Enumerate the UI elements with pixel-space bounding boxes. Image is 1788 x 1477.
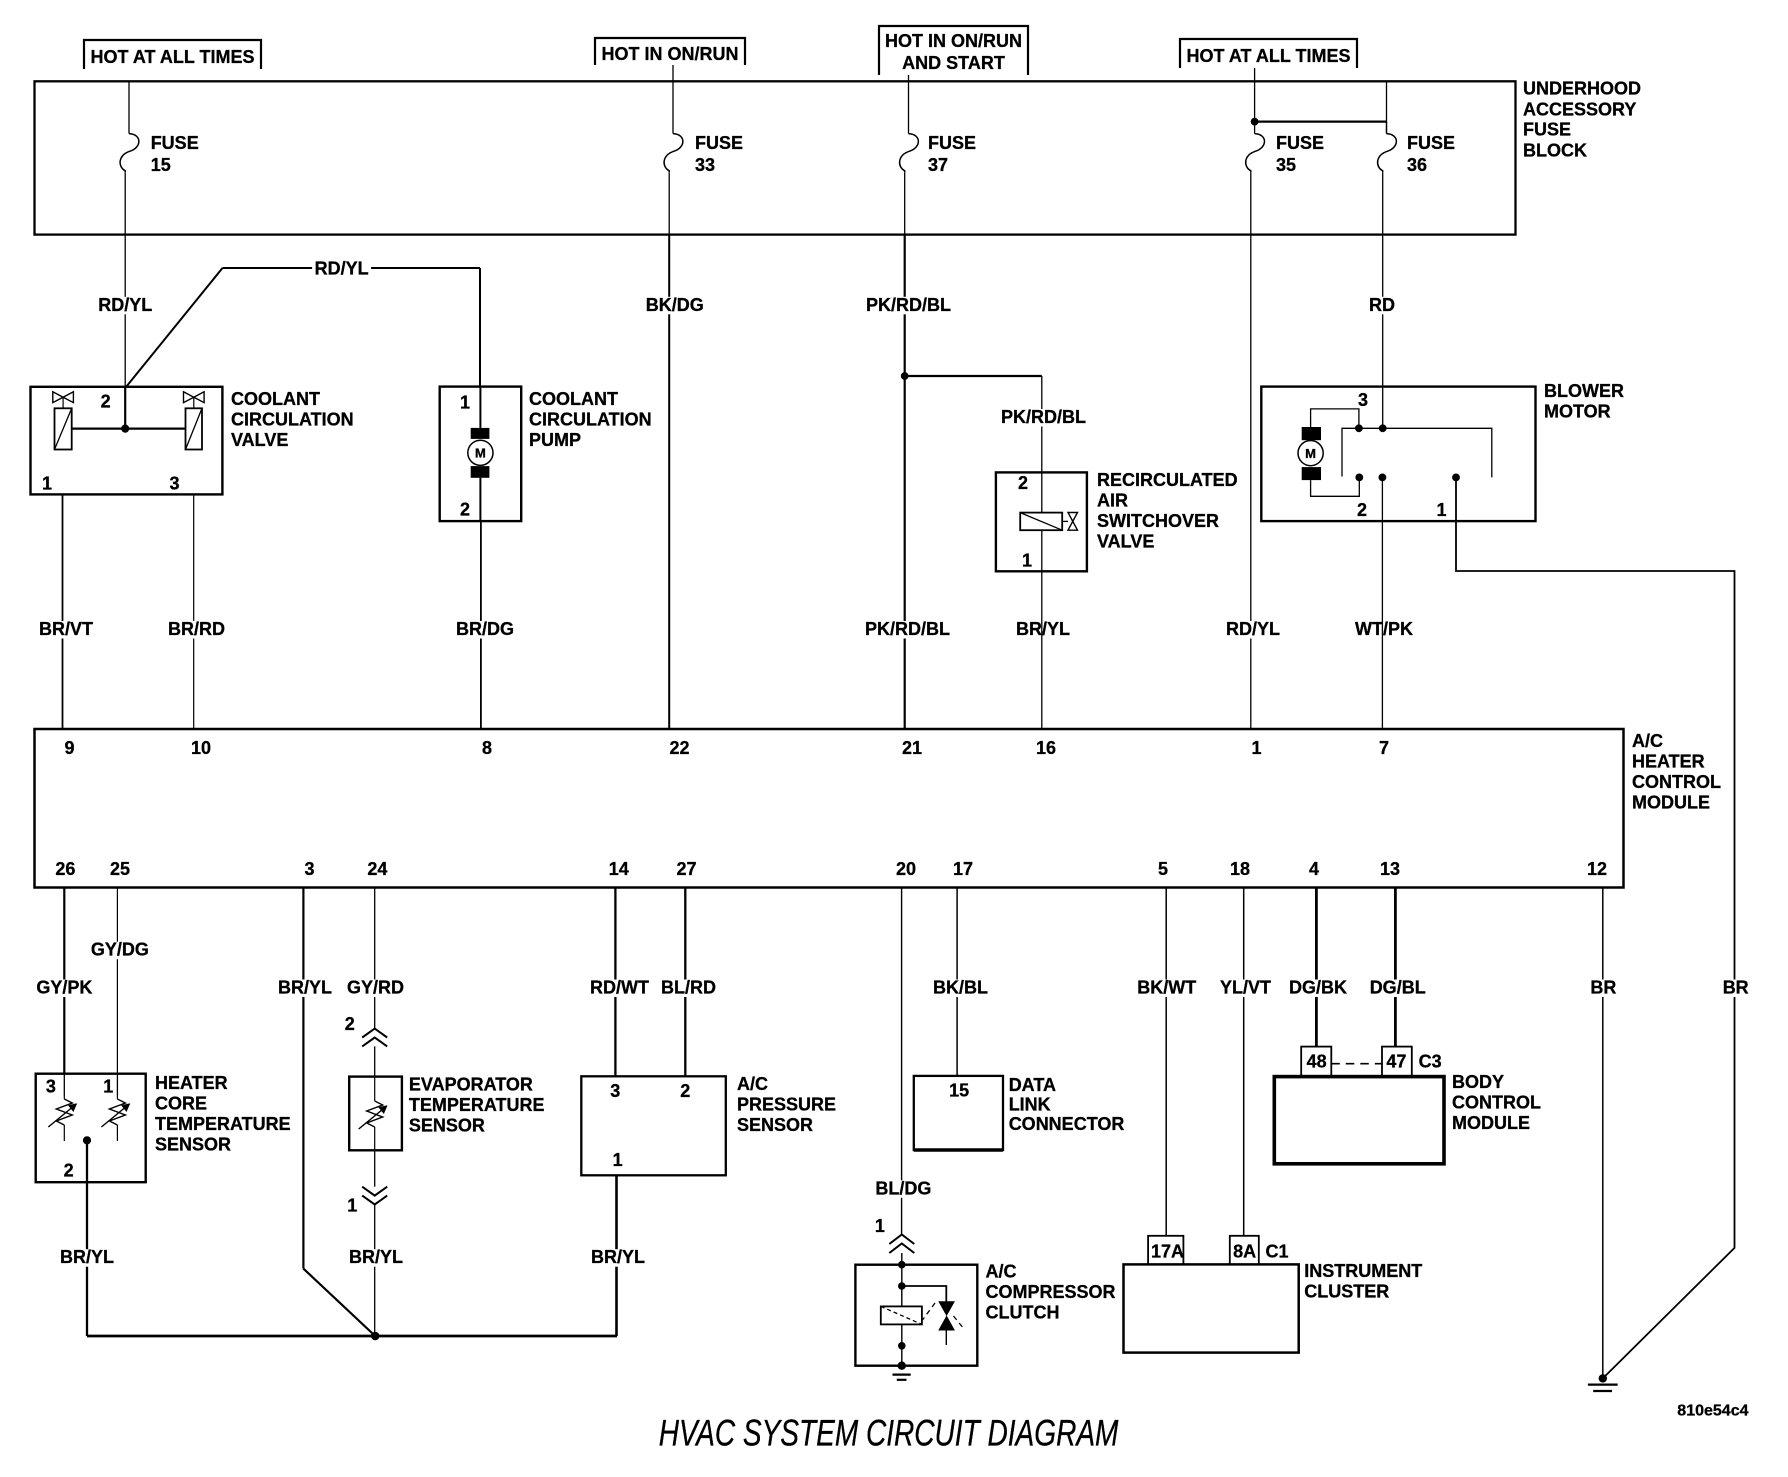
- contact dot blower pin1: [1452, 474, 1460, 482]
- A/C compressor clutch box: [855, 1265, 977, 1366]
- blower motor box: [1261, 387, 1535, 521]
- svg-text:CLUSTER: CLUSTER: [1304, 1282, 1389, 1302]
- wire blower motor bottom to pin2 row: [1311, 477, 1360, 496]
- fuse F36 wire to block edge: [1382, 172, 1384, 234]
- junction dot clutch bottom1: [898, 1342, 906, 1350]
- svg-text:3: 3: [170, 474, 180, 494]
- svg-text:3: 3: [610, 1081, 620, 1101]
- svg-text:9: 9: [65, 738, 75, 758]
- heater core temperature sensor label: [155, 1073, 291, 1155]
- label PK/RD/BL (upper): [864, 295, 954, 315]
- power label HOT IN ON/RUN: [595, 38, 745, 65]
- svg-text:VALVE: VALVE: [1097, 532, 1154, 552]
- wire internal link coolant valve: [72, 427, 186, 429]
- A/C pressure sensor box: [581, 1076, 726, 1175]
- svg-text:RECIRCULATED: RECIRCULATED: [1097, 470, 1238, 490]
- wire BR/YL evaporator to splice: [374, 1205, 376, 1337]
- module bottom pin 20: [896, 859, 916, 879]
- junction dot fuse35/36 feed: [1251, 118, 1259, 126]
- label RD/YL (fuse15 wire): [96, 295, 155, 315]
- label GY/PK: [34, 978, 95, 998]
- connector C1 label: [1266, 1242, 1289, 1262]
- label BL/DG: [873, 1178, 934, 1198]
- svg-text:2: 2: [345, 1014, 355, 1034]
- svg-text:WT/PK: WT/PK: [1355, 619, 1413, 639]
- svg-text:LINK: LINK: [1009, 1094, 1051, 1114]
- svg-text:1: 1: [460, 393, 470, 413]
- wire stub HOT IN ON/RUN to bus: [672, 65, 674, 82]
- pin 2 pressure sensor: [680, 1081, 690, 1101]
- svg-text:8: 8: [482, 738, 492, 758]
- svg-text:48: 48: [1307, 1052, 1327, 1072]
- wire WT/PK blower pin2 to module pin7: [1381, 477, 1383, 729]
- wire GY/DG module pin25 to heater core sensor pin1: [116, 888, 118, 1074]
- module top pin 16: [1036, 738, 1056, 758]
- coolant circulation pump box: [440, 387, 522, 521]
- ground compressor clutch: [893, 1375, 911, 1380]
- pin 2 heater core sensor: [64, 1161, 74, 1181]
- fuse F15 element: [120, 134, 139, 173]
- module bottom pin 17: [953, 859, 973, 879]
- label WT/PK: [1353, 619, 1416, 639]
- connector 1 evaporator sensor: [347, 1187, 387, 1216]
- svg-text:5: 5: [1158, 859, 1168, 879]
- label BR/YL (pin3): [276, 978, 335, 998]
- wire BR/RD valve pin3 to module pin10: [193, 494, 195, 729]
- svg-text:20: 20: [896, 859, 916, 879]
- svg-text:PK/RD/BL: PK/RD/BL: [865, 619, 950, 639]
- label BR/YL (heater core): [58, 1247, 117, 1267]
- label PK/RD/BL (lower): [863, 619, 953, 639]
- fuse F15 wire from bus: [128, 81, 130, 133]
- coolant circulation valve label: [231, 389, 354, 450]
- label BR (right): [1720, 978, 1751, 998]
- svg-text:C1: C1: [1266, 1242, 1289, 1262]
- fuse F37 wire from bus: [908, 81, 910, 133]
- svg-text:7: 7: [1379, 738, 1389, 758]
- coolant circulation valve box: [31, 387, 223, 495]
- svg-text:CONTROL: CONTROL: [1632, 772, 1721, 792]
- module bottom pin 5: [1158, 859, 1168, 879]
- svg-text:35: 35: [1276, 155, 1296, 175]
- module bottom pin 4: [1309, 859, 1319, 879]
- fuse F15 wire to block edge: [124, 172, 126, 234]
- A/C pressure sensor label: [737, 1074, 836, 1135]
- ground splice dot: [1599, 1374, 1607, 1382]
- svg-text:GY/DG: GY/DG: [91, 940, 149, 960]
- svg-text:2: 2: [1357, 500, 1367, 520]
- svg-text:1: 1: [42, 474, 52, 494]
- junction dot coolant valve pin2: [121, 425, 129, 433]
- body control module pin 48: [1301, 1047, 1331, 1077]
- fuse F36 element: [1378, 134, 1397, 173]
- svg-text:14: 14: [609, 859, 629, 879]
- label YL/VT: [1218, 978, 1274, 998]
- module bottom pin 13: [1380, 859, 1400, 879]
- svg-text:12: 12: [1587, 859, 1607, 879]
- fuse F36 wire from bus: [1386, 81, 1388, 133]
- label PK/RD/BL (branch): [999, 407, 1089, 427]
- junction dot clutch branch: [898, 1282, 906, 1290]
- contact dot blower pin2: [1379, 474, 1387, 482]
- pin 1 pressure sensor: [613, 1150, 623, 1170]
- svg-text:TEMPERATURE: TEMPERATURE: [155, 1114, 291, 1134]
- fuse F35 wire to block edge: [1250, 172, 1252, 234]
- fuse F35 wire from bus: [1254, 81, 1256, 133]
- svg-text:10: 10: [191, 738, 211, 758]
- svg-text:HVAC SYSTEM CIRCUIT DIAGRAM: HVAC SYSTEM CIRCUIT DIAGRAM: [659, 1411, 1119, 1453]
- svg-text:47: 47: [1386, 1052, 1406, 1072]
- label RD/YL (branch to pump): [312, 258, 371, 278]
- label BR/RD: [166, 619, 228, 639]
- svg-text:BLOCK: BLOCK: [1523, 141, 1587, 161]
- instrument cluster label: [1304, 1261, 1422, 1302]
- fuse F37 element: [900, 134, 919, 173]
- svg-text:BK/BL: BK/BL: [933, 978, 988, 998]
- svg-text:1: 1: [875, 1216, 885, 1236]
- module bottom pin 12: [1587, 859, 1607, 879]
- fuse F37 wire to block edge: [904, 172, 906, 234]
- svg-text:AND START: AND START: [902, 53, 1005, 73]
- wire RD/WT module pin14 to pressure sensor pin3: [614, 888, 616, 1077]
- power label HOT AT ALL TIMES (left): [84, 40, 261, 69]
- svg-text:FUSE: FUSE: [928, 133, 976, 153]
- fuse F33 wire from bus: [672, 81, 674, 133]
- svg-text:37: 37: [928, 155, 948, 175]
- module bottom pin 14: [609, 859, 629, 879]
- wire fuse35 feed to fuse36: [1255, 122, 1387, 134]
- svg-text:BR/RD: BR/RD: [168, 619, 225, 639]
- svg-text:BL/DG: BL/DG: [875, 1178, 931, 1198]
- svg-text:BR/YL: BR/YL: [591, 1247, 645, 1267]
- svg-text:1: 1: [1252, 738, 1262, 758]
- svg-text:BR/YL: BR/YL: [349, 1247, 403, 1267]
- svg-text:BR/DG: BR/DG: [456, 619, 514, 639]
- wire clutch diode branch: [902, 1286, 947, 1302]
- svg-text:CIRCULATION: CIRCULATION: [529, 410, 652, 430]
- dashed link 48-47: [1331, 1063, 1382, 1065]
- svg-text:COOLANT: COOLANT: [231, 389, 320, 409]
- junction dot clutch top: [898, 1261, 906, 1269]
- wire RD/YL branch diagonal to coolant circulation pump: [125, 268, 480, 388]
- junction dot heater core pin2: [83, 1136, 91, 1144]
- junction dot splice: [371, 1332, 380, 1341]
- svg-text:BODY: BODY: [1452, 1072, 1504, 1092]
- wire BR/YL module pin3 to splice: [303, 888, 375, 1337]
- recirc valve solenoid: [1020, 513, 1077, 531]
- svg-text:DG/BL: DG/BL: [1370, 978, 1426, 998]
- label BR/YL (evap): [347, 1247, 406, 1267]
- svg-text:DG/BK: DG/BK: [1289, 978, 1347, 998]
- svg-text:1: 1: [347, 1196, 357, 1216]
- underhood accessory fuse block box: [35, 81, 1516, 234]
- svg-text:RD/YL: RD/YL: [315, 258, 369, 278]
- svg-text:FUSE: FUSE: [151, 133, 199, 153]
- svg-text:HOT AT ALL TIMES: HOT AT ALL TIMES: [91, 47, 255, 67]
- svg-text:CORE: CORE: [155, 1094, 207, 1114]
- pin 2 coolant valve: [101, 392, 111, 412]
- svg-text:BR/YL: BR/YL: [1016, 619, 1070, 639]
- svg-text:COMPRESSOR: COMPRESSOR: [986, 1282, 1116, 1302]
- instrument cluster box: [1124, 1264, 1299, 1352]
- svg-text:AIR: AIR: [1097, 491, 1128, 511]
- module bottom pin 24: [367, 859, 387, 879]
- svg-text:CLUTCH: CLUTCH: [986, 1303, 1060, 1323]
- svg-text:BR: BR: [1723, 978, 1749, 998]
- wire BK/WT module pin5 to instrument cluster 17A: [1165, 888, 1167, 1236]
- svg-text:HEATER: HEATER: [1632, 752, 1705, 772]
- wire BK/BL module pin17 to data link connector: [956, 888, 958, 1076]
- svg-text:BR/YL: BR/YL: [60, 1247, 114, 1267]
- svg-text:MOTOR: MOTOR: [1544, 402, 1611, 422]
- pin 3 pressure sensor: [610, 1081, 620, 1101]
- pin 15 data link connector: [949, 1081, 969, 1101]
- wire YL/VT module pin18 to instrument cluster 8A: [1243, 888, 1245, 1236]
- svg-text:PK/RD/BL: PK/RD/BL: [1001, 407, 1086, 427]
- svg-text:INSTRUMENT: INSTRUMENT: [1304, 1261, 1422, 1281]
- blower motor label: [1544, 381, 1624, 422]
- svg-text:24: 24: [367, 859, 387, 879]
- svg-text:FUSE: FUSE: [1523, 120, 1571, 140]
- pin 3 coolant valve: [170, 474, 180, 494]
- wire PK/RD/BL branch to recirculated air switchover valve: [905, 376, 1042, 472]
- wire heater core pin2 to splice bus: [86, 1140, 88, 1336]
- fuse F33 wire to block edge: [668, 172, 670, 234]
- svg-text:1: 1: [1437, 500, 1447, 520]
- svg-text:1: 1: [613, 1150, 623, 1170]
- body control module box: [1274, 1077, 1444, 1164]
- wire BL/DG module pin20 to compressor clutch: [901, 888, 903, 1235]
- wire RD fuse36 to blower motor: [1382, 235, 1384, 429]
- label BR/YL (recirc valve): [1014, 619, 1073, 639]
- svg-text:HOT IN ON/RUN: HOT IN ON/RUN: [602, 44, 739, 64]
- label DG/BK: [1287, 978, 1350, 998]
- module bottom pin 3: [305, 859, 315, 879]
- svg-text:18: 18: [1230, 859, 1250, 879]
- wire RD/YL fuse35 to module pin1: [1250, 235, 1252, 729]
- wire BR module pin12 to ground: [1602, 888, 1604, 1379]
- wire evaporator sensor pin1 down: [374, 1150, 376, 1186]
- pin 1 coolant valve: [42, 474, 52, 494]
- fuse F33 label: [695, 133, 743, 175]
- svg-text:MODULE: MODULE: [1632, 793, 1710, 813]
- wire clutch coil bottom: [901, 1324, 903, 1365]
- svg-text:MODULE: MODULE: [1452, 1113, 1530, 1133]
- wire stub HOT IN ON/RUN AND START to bus: [908, 75, 910, 82]
- wire BK/DG fuse33 to module pin22: [668, 235, 670, 729]
- instrument cluster pin 8A: [1230, 1236, 1259, 1265]
- clutch suppression diode: [923, 1302, 965, 1345]
- svg-text:SWITCHOVER: SWITCHOVER: [1097, 511, 1219, 531]
- svg-text:2: 2: [101, 392, 111, 412]
- pin 2 blower motor: [1357, 500, 1367, 520]
- module bottom pin 26: [55, 859, 75, 879]
- module bottom pin 18: [1230, 859, 1250, 879]
- module bottom pin 27: [677, 859, 697, 879]
- svg-text:21: 21: [902, 738, 922, 758]
- coolant pump motor M: [468, 387, 493, 521]
- svg-text:13: 13: [1380, 859, 1400, 879]
- svg-text:4: 4: [1309, 859, 1319, 879]
- module top pin 21: [902, 738, 922, 758]
- svg-text:PRESSURE: PRESSURE: [737, 1095, 836, 1115]
- pin 1 coolant pump: [460, 393, 470, 413]
- svg-text:YL/VT: YL/VT: [1220, 978, 1271, 998]
- svg-text:C3: C3: [1419, 1052, 1442, 1072]
- svg-text:BK/WT: BK/WT: [1137, 978, 1196, 998]
- fuse F36 label: [1407, 133, 1455, 175]
- fuse F37 label: [928, 133, 976, 175]
- svg-text:BLOWER: BLOWER: [1544, 381, 1624, 401]
- label RD/YL (fuse35 lower): [1224, 619, 1283, 639]
- wire GY/RD module pin24 to evaporator sensor: [374, 888, 376, 1029]
- body control module pin 47: [1382, 1047, 1412, 1077]
- wire blower motor top to pin3 bus: [1311, 409, 1359, 428]
- module top pin 1: [1252, 738, 1262, 758]
- svg-text:VALVE: VALVE: [231, 430, 288, 450]
- A/C compressor clutch label: [986, 1262, 1116, 1323]
- label BK/WT: [1135, 978, 1199, 998]
- fuse F35 element: [1246, 134, 1265, 173]
- svg-text:SENSOR: SENSOR: [737, 1115, 813, 1135]
- svg-text:SENSOR: SENSOR: [409, 1116, 485, 1136]
- svg-text:ACCESSORY: ACCESSORY: [1523, 99, 1636, 119]
- pin 1 recirc valve: [1022, 551, 1032, 571]
- svg-text:GY/PK: GY/PK: [36, 978, 92, 998]
- wire into compressor clutch: [901, 1253, 903, 1265]
- svg-text:FUSE: FUSE: [695, 133, 743, 153]
- label GY/DG: [88, 940, 151, 960]
- label RD: [1367, 295, 1398, 315]
- wire blower internal bus: [1342, 428, 1492, 477]
- pin 3 heater core sensor: [46, 1077, 56, 1097]
- junction dot clutch bottom2: [898, 1362, 906, 1370]
- svg-text:FUSE: FUSE: [1276, 133, 1324, 153]
- fuse block label: [1523, 79, 1641, 161]
- thermistor evaporator sensor: [359, 1077, 387, 1151]
- label BK/BL: [931, 978, 991, 998]
- evaporator temperature sensor label: [409, 1075, 545, 1136]
- pin 1 blower motor: [1437, 500, 1447, 520]
- data link connector box: [914, 1076, 1003, 1150]
- wire DG/BL module pin13 to body control module 47: [1394, 888, 1397, 1047]
- svg-text:DATA: DATA: [1009, 1075, 1056, 1095]
- svg-text:26: 26: [55, 859, 75, 879]
- coolant circulation pump label: [529, 389, 652, 450]
- wire GY/PK module pin26 to heater core sensor pin3: [63, 888, 65, 1074]
- svg-text:8A: 8A: [1233, 1242, 1256, 1262]
- junction dot blower RD feed: [1379, 424, 1387, 432]
- ground symbol right: [1588, 1385, 1618, 1391]
- svg-text:3: 3: [305, 859, 315, 879]
- svg-text:1: 1: [1022, 551, 1032, 571]
- recirculated air switchover valve label: [1097, 470, 1238, 552]
- coolant circulation valve solenoid left: [53, 392, 74, 450]
- svg-text:HEATER: HEATER: [155, 1073, 228, 1093]
- svg-text:M: M: [1305, 446, 1316, 461]
- svg-text:36: 36: [1407, 155, 1427, 175]
- svg-text:2: 2: [680, 1081, 690, 1101]
- svg-text:UNDERHOOD: UNDERHOOD: [1523, 79, 1641, 99]
- svg-text:BK/DG: BK/DG: [646, 295, 704, 315]
- thermistor heater core sensor right: [101, 1074, 129, 1141]
- wire RD/YL from fuse15 to coolant circulation valve: [124, 235, 126, 429]
- svg-text:A/C: A/C: [986, 1262, 1017, 1282]
- wire PK/RD/BL fuse37 down to module pin21: [904, 235, 906, 729]
- label DG/BL: [1367, 978, 1428, 998]
- module top pin 7: [1379, 738, 1389, 758]
- module top pin 22: [670, 738, 690, 758]
- wire recirc valve internal: [1041, 472, 1043, 571]
- svg-text:SENSOR: SENSOR: [155, 1135, 231, 1155]
- recirculated air switchover valve box: [996, 472, 1087, 571]
- pin 3 blower motor: [1358, 390, 1368, 410]
- svg-text:M: M: [475, 446, 486, 461]
- label BR/VT: [37, 619, 96, 639]
- wire BR blower pin1 to right side: [1456, 477, 1735, 1378]
- thermistor heater core sensor left: [48, 1074, 76, 1141]
- svg-text:15: 15: [151, 155, 171, 175]
- svg-text:16: 16: [1036, 738, 1056, 758]
- svg-text:CONTROL: CONTROL: [1452, 1093, 1541, 1113]
- fuse F35 label: [1276, 133, 1324, 175]
- fuse F33 element: [664, 134, 683, 173]
- coolant circulation valve solenoid right: [184, 392, 205, 450]
- evaporator temperature sensor box: [349, 1077, 402, 1151]
- svg-text:TEMPERATURE: TEMPERATURE: [409, 1095, 545, 1115]
- title HVAC SYSTEM CIRCUIT DIAGRAM: [659, 1411, 1119, 1453]
- power label HOT AT ALL TIMES (right): [1180, 39, 1357, 68]
- svg-text:25: 25: [110, 859, 130, 879]
- diagram code 810e54c4: [1677, 1402, 1748, 1419]
- label BR/DG: [454, 619, 517, 639]
- connector 2 evaporator sensor: [345, 1014, 387, 1046]
- svg-text:2: 2: [64, 1161, 74, 1181]
- wire BR/YL recirc valve to module pin16: [1041, 571, 1043, 729]
- svg-text:BR/YL: BR/YL: [278, 978, 332, 998]
- svg-text:A/C: A/C: [737, 1074, 768, 1094]
- wire DG/BK module pin4 to body control module 48: [1315, 888, 1318, 1047]
- junction dot blower pin3: [1355, 424, 1363, 432]
- svg-text:CIRCULATION: CIRCULATION: [231, 410, 354, 430]
- svg-text:33: 33: [695, 155, 715, 175]
- blower motor M symbol: [1298, 427, 1323, 480]
- svg-text:3: 3: [1358, 390, 1368, 410]
- label BR (pin12): [1588, 978, 1619, 998]
- heater core temperature sensor box: [36, 1074, 146, 1183]
- svg-text:PK/RD/BL: PK/RD/BL: [866, 295, 951, 315]
- label GY/RD: [345, 978, 407, 998]
- wire BR/DG pump to module pin8: [480, 521, 482, 729]
- svg-text:17: 17: [953, 859, 973, 879]
- svg-text:15: 15: [949, 1081, 969, 1101]
- power label HOT IN ON/RUN AND START: [879, 26, 1028, 75]
- wire BL/RD module pin27 to pressure sensor pin2: [684, 888, 686, 1077]
- module top pin 10: [191, 738, 211, 758]
- pin 1 heater core sensor: [103, 1077, 113, 1097]
- svg-text:RD/YL: RD/YL: [98, 295, 152, 315]
- module top pin 9: [65, 738, 75, 758]
- body control module label: [1452, 1072, 1541, 1133]
- label BL/RD: [659, 978, 719, 998]
- A/C heater control module label: [1632, 731, 1721, 813]
- A/C heater control module box: [35, 729, 1624, 888]
- svg-text:COOLANT: COOLANT: [529, 389, 618, 409]
- svg-text:2: 2: [1018, 473, 1028, 493]
- label BK/DG: [643, 295, 706, 315]
- svg-text:BL/RD: BL/RD: [661, 978, 716, 998]
- svg-text:1: 1: [103, 1077, 113, 1097]
